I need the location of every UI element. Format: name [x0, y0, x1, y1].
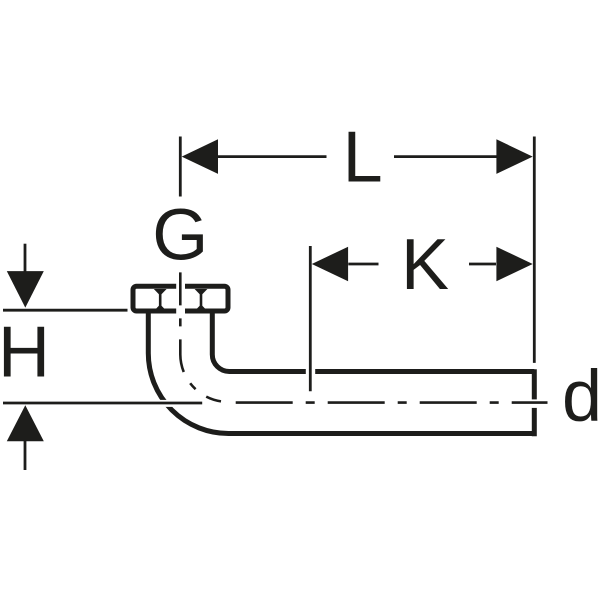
svg-text:H: H [0, 313, 50, 393]
arrowhead L left [182, 139, 218, 174]
center line of vertical pipe and bend (dash-dot) [180, 272, 221, 401]
svg-text:d: d [562, 357, 600, 437]
dimension K line left segment [348, 263, 378, 266]
extension line left of L (pipe axis) [179, 137, 182, 197]
arrowhead H up [7, 405, 44, 441]
nut G body [133, 286, 228, 311]
extension line left of K [309, 246, 312, 391]
svg-text:K: K [401, 225, 449, 305]
H up-arrow stem [24, 441, 27, 471]
nut facet right [195, 289, 208, 311]
arrowhead K left [312, 247, 348, 282]
white gap in nut at vertical center line [176, 281, 185, 316]
pipe inner wall (right wall, inner bend, top wall) [212, 312, 534, 372]
H lower reference line (pipe axis) [3, 402, 202, 405]
center line of horizontal pipe (dash-dot) [236, 401, 548, 404]
nut facet left [154, 289, 167, 311]
H down-arrow stem [24, 244, 27, 272]
svg-text:G: G [152, 195, 208, 275]
extension line right of L and K (pipe end) [533, 137, 536, 363]
white gap in end cap at center line [530, 399, 539, 408]
svg-text:L: L [343, 118, 383, 198]
arrowhead L right [496, 139, 532, 174]
pipe outer wall (left wall, outer bend, bottom wall) [148, 312, 534, 434]
dimension K line right segment [469, 263, 496, 266]
dimension L line right segment [394, 155, 497, 158]
white gap in outer bend at H line [152, 400, 182, 407]
pipe end cap [532, 369, 537, 436]
arrowhead H down [7, 271, 44, 308]
white gap in top wall at K extension line [306, 368, 315, 376]
dimension L line left segment [218, 155, 327, 158]
H upper reference line (nut face) [3, 309, 128, 312]
arrowhead K right [496, 247, 532, 282]
